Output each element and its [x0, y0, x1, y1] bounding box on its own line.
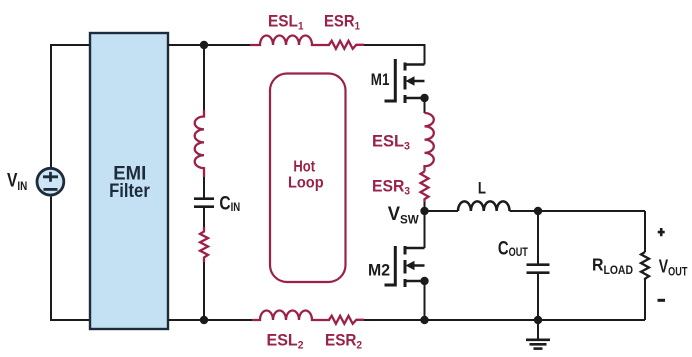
- bottom rail wire ESR2 to right side: [364, 319, 645, 321]
- resistor ESR2: [329, 316, 364, 324]
- svg-text:M2: M2: [368, 262, 390, 280]
- wire from VIN top to EMI filter: [51, 45, 90, 167]
- wire VSW to M2 drain: [424, 211, 426, 248]
- svg-text:ESR1: ESR1: [324, 12, 360, 33]
- right branch wire down to RLOAD: [644, 211, 646, 252]
- M2 source junction dot: [420, 277, 428, 285]
- COUT top junction dot: [534, 207, 542, 215]
- svg-text:L: L: [478, 180, 486, 198]
- wire M1 source to ESL3: [424, 98, 426, 113]
- resistor ESR3: [421, 172, 429, 203]
- EMI filter block: [90, 33, 168, 329]
- inductor ESL of CIN branch: [195, 110, 204, 177]
- ground: [526, 340, 550, 349]
- COUT bottom junction dot: [534, 316, 542, 324]
- inductor ESL2: [252, 311, 330, 321]
- wire VSW to inductor L: [425, 210, 459, 212]
- wire ESR to bottom rail: [203, 262, 205, 320]
- bottom rail junction dot at M2 branch: [420, 316, 428, 324]
- transistor M2: [385, 246, 425, 287]
- plus polarity mark: [658, 228, 665, 236]
- inductor ESL1: [250, 36, 330, 46]
- wire RLOAD to bottom rail: [644, 280, 646, 320]
- wire from VIN bottom to EMI filter: [51, 197, 90, 321]
- wire ESR1 to M1 drain: [364, 45, 425, 65]
- resistor RLOAD: [641, 252, 649, 280]
- bottom rail wire EMI to ESL2: [168, 319, 252, 321]
- voltage source VIN: [37, 168, 64, 195]
- svg-text:Filter: Filter: [109, 181, 150, 202]
- wire CIN to ESR: [203, 208, 205, 227]
- minus polarity mark: [658, 299, 666, 302]
- wire to ground: [537, 320, 539, 340]
- wire L to right corner: [510, 210, 645, 212]
- svg-text:Loop: Loop: [288, 175, 324, 192]
- hot loop outline: [270, 74, 346, 283]
- svg-text:M1: M1: [371, 71, 390, 89]
- inductor ESL3: [425, 113, 434, 172]
- wire EMI filter output to node A: [168, 44, 250, 46]
- node A junction dot: [200, 41, 208, 49]
- transistor M1: [385, 59, 425, 103]
- capacitor CIN: [194, 199, 214, 207]
- resistor ESR1: [329, 41, 364, 49]
- svg-text:ESR3: ESR3: [372, 177, 410, 198]
- wire ESL to CIN: [203, 177, 205, 198]
- inductor L: [458, 201, 510, 211]
- M1 source junction dot: [420, 94, 428, 102]
- bottom node junction dot of CIN branch: [200, 316, 208, 324]
- resistor ESR of CIN branch: [200, 227, 208, 262]
- svg-text:ESR2: ESR2: [325, 331, 362, 352]
- node VSW junction dot: [420, 207, 428, 215]
- wire COUT bottom: [537, 274, 539, 320]
- capacitor COUT: [527, 265, 550, 273]
- wire M2 source to bottom rail: [424, 281, 426, 320]
- wire COUT top: [537, 211, 539, 264]
- node A to CIN branch wire: [203, 45, 205, 110]
- svg-text:Hot: Hot: [293, 158, 315, 175]
- wire ESR3 to VSW: [424, 202, 426, 211]
